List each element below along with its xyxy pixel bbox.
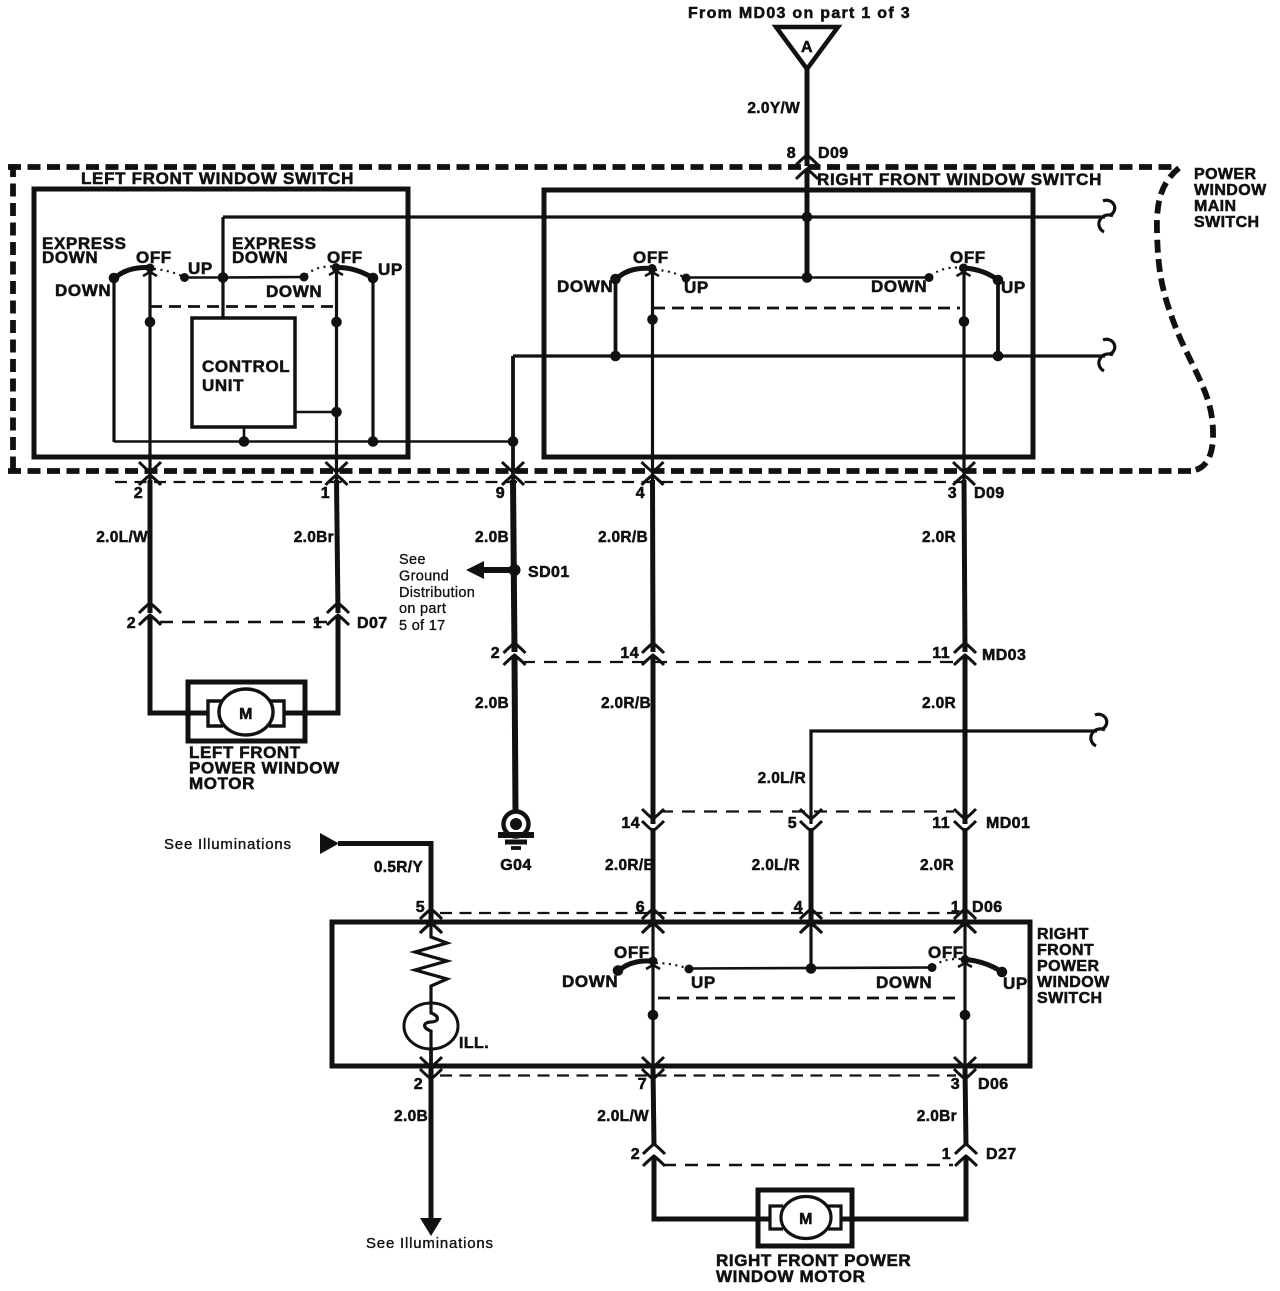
svg-text:2: 2 — [631, 1146, 640, 1163]
switch F dotted throw DOWN-OFF — [934, 959, 961, 966]
svg-text:OFF: OFF — [136, 248, 172, 267]
wire common node to DOWN-B — [223, 276, 304, 279]
svg-text:D09: D09 — [818, 145, 849, 162]
svg-text:M: M — [239, 706, 253, 723]
node: switch A common junction — [218, 272, 229, 283]
wire D27 pin1 to right motor — [840, 1158, 966, 1219]
svg-text:9: 9 — [496, 485, 505, 502]
connector D06 top row dashed line — [440, 912, 958, 914]
svg-text:3: 3 — [948, 485, 957, 502]
svg-text:2: 2 — [127, 615, 136, 632]
node bus / control unit — [239, 436, 250, 447]
svg-text:4: 4 — [636, 485, 645, 502]
wire 2.0B MD03 to ground G04 — [515, 656, 516, 812]
switch B contact DOWN — [300, 273, 309, 282]
label RIGHT FRONT POWER WINDOW SWITCH — [1037, 926, 1110, 1007]
svg-text:UP: UP — [378, 260, 403, 279]
connector symbol D09 pin 8 — [796, 155, 818, 165]
svg-text:DOWN: DOWN — [55, 281, 111, 300]
wire feed from top rail down to switch A common — [221, 217, 224, 318]
svg-text:2.0R: 2.0R — [922, 529, 956, 546]
wire pin 6 down to switch E — [651, 924, 654, 962]
connector D09 pin 1 symbol — [326, 462, 348, 472]
wire break curl (2.0L/R rail) — [1095, 714, 1107, 729]
svg-text:1: 1 — [942, 1146, 951, 1163]
svg-text:2.0R/B: 2.0R/B — [598, 529, 648, 546]
svg-text:8: 8 — [787, 145, 796, 162]
switch B dotted throw DOWN-OFF — [306, 266, 332, 275]
wire 2.0R pin3 to MD03 — [964, 480, 965, 652]
svg-text:D09: D09 — [974, 485, 1005, 502]
svg-text:CONTROL: CONTROL — [202, 357, 290, 376]
switch C arm (OFF-DOWN thick arc) — [616, 268, 653, 280]
arrow to illuminations — [320, 833, 339, 854]
connector D06 pin 2 symbol — [420, 1057, 442, 1067]
svg-text:RIGHT: RIGHT — [1037, 926, 1089, 943]
svg-text:14: 14 — [621, 815, 640, 832]
svg-text:3: 3 — [951, 1076, 960, 1093]
ground G04 symbol — [498, 812, 534, 875]
wire 2.0R/B MD01 to D06 pin 6 — [651, 828, 656, 924]
svg-text:Ground: Ground — [399, 569, 449, 585]
node lower rail / UP-D — [993, 351, 1004, 362]
left front power window motor M1 — [188, 682, 305, 741]
node bus / UP-B — [368, 436, 379, 447]
label EXPRESS DOWN (switch B) — [232, 234, 317, 267]
wire 2.0L/R branch rail to break symbol — [811, 731, 1097, 824]
svg-text:2: 2 — [134, 485, 143, 502]
wire OFF-F down to pin 3 — [963, 960, 966, 1067]
right front window switch box — [544, 190, 1033, 457]
svg-text:UP: UP — [1003, 974, 1028, 993]
label POWER WINDOW MAIN SWITCH — [1194, 166, 1267, 231]
wire OFF-D down to pin 3 — [962, 268, 965, 480]
svg-text:1: 1 — [321, 485, 330, 502]
wire lower rail drop to pin 9 — [511, 356, 515, 480]
switch D contact UP — [993, 275, 1004, 286]
svg-text:SD01: SD01 — [528, 564, 570, 581]
wire control unit bottom to bus — [243, 427, 246, 442]
svg-text:DOWN: DOWN — [232, 248, 288, 267]
right front power window switch box — [332, 922, 1030, 1066]
svg-text:2.0R/B: 2.0R/B — [601, 695, 651, 712]
switch B contact OFF — [332, 263, 341, 272]
wire 2.0B pin9 to SD01 to MD03 — [513, 480, 515, 652]
switch C dotted throw OFF-UP — [655, 270, 684, 277]
power window main switch dashed box: bottom edge — [8, 468, 1192, 474]
node on OFF-B wire (control unit tap) — [331, 407, 342, 418]
node on OFF-B wire (mech link) — [331, 317, 342, 328]
svg-text:D07: D07 — [357, 615, 388, 632]
switch C contact OFF — [648, 264, 657, 273]
connector D07 pin 2 symbol — [139, 603, 161, 613]
svg-text:LEFT FRONT WINDOW SWITCH: LEFT FRONT WINDOW SWITCH — [81, 169, 354, 188]
connector D27 pin 1 symbol — [955, 1144, 977, 1154]
redraw pin entry chevrons over box edge — [420, 923, 442, 933]
rail wire UP-E to DOWN-F — [689, 968, 932, 969]
wire 2.0L/W pin 7 to D27 pin 2 — [653, 1068, 654, 1146]
connector D09 pin 9 symbol — [502, 462, 524, 472]
switch A contact DOWN — [109, 273, 120, 284]
svg-text:DOWN: DOWN — [557, 277, 613, 296]
switch E arm (OFF-DOWN thick arc) — [618, 961, 653, 972]
svg-text:2.0R/B: 2.0R/B — [605, 857, 655, 874]
right front power window motor M2 — [758, 1190, 852, 1246]
svg-text:OFF: OFF — [327, 248, 363, 267]
wire 2.0R/B pin4 to MD03 — [650, 480, 656, 652]
switch B contact UP — [368, 273, 379, 284]
internal ground bus wire — [114, 440, 513, 443]
svg-text:M: M — [799, 1211, 813, 1228]
svg-text:2: 2 — [414, 1076, 423, 1093]
common rail wire UP-C to DOWN-D — [686, 276, 929, 279]
switch D contact DOWN — [925, 273, 934, 282]
wire pin 4 down to rail — [809, 924, 812, 969]
node on OFF-A wire — [145, 317, 156, 328]
connector MD03 pin 11 symbol — [954, 643, 976, 653]
svg-text:See: See — [399, 552, 426, 568]
power window main switch dashed box: wavy right edge — [1157, 168, 1213, 471]
svg-text:2.0L/R: 2.0L/R — [758, 770, 806, 787]
connector D06 pin 5 symbol — [420, 909, 442, 919]
switch D contact OFF — [959, 264, 968, 273]
wire OFF-E down to pin 7 — [651, 961, 654, 1066]
svg-text:4: 4 — [794, 899, 803, 916]
svg-text:2.0L/R: 2.0L/R — [752, 857, 800, 874]
lamp ILL — [404, 1003, 458, 1049]
wire D07 pin1 to left motor — [282, 617, 338, 713]
wire from A to D09 pin 8 — [805, 69, 810, 166]
connector D06 pin 6 symbol — [642, 909, 664, 919]
switch A contact OFF — [146, 264, 155, 273]
connector D09 row dashed line — [115, 481, 965, 483]
node lower rail / DOWN-C — [610, 351, 621, 362]
svg-text:11: 11 — [932, 645, 950, 662]
svg-text:WINDOW MOTOR: WINDOW MOTOR — [716, 1267, 865, 1286]
svg-text:DOWN: DOWN — [42, 248, 98, 267]
feed rail wire from left box to break symbol — [223, 215, 1105, 218]
svg-text:MD03: MD03 — [982, 647, 1026, 664]
svg-text:DOWN: DOWN — [871, 277, 927, 296]
node on OFF-C wire — [647, 314, 658, 325]
svg-text:DOWN: DOWN — [876, 973, 932, 992]
svg-text:D27: D27 — [986, 1146, 1017, 1163]
svg-text:2.0R: 2.0R — [922, 695, 956, 712]
off-page connector A (triangle) — [776, 27, 838, 69]
svg-text:OFF: OFF — [950, 248, 986, 267]
mechanical link dashed line between switch C and D — [653, 307, 960, 310]
switch D dotted throw DOWN-OFF — [931, 267, 959, 276]
connector D09 pin 3 symbol — [953, 462, 975, 472]
wire 2.0L/R MD01 to D06 pin 4 — [809, 828, 814, 924]
switch A pivot tick — [143, 272, 157, 276]
switch A contact UP — [180, 273, 189, 282]
wire OFF-C down to pin 4 — [651, 269, 654, 481]
connector D06 bottom row dashed line — [440, 1074, 956, 1076]
svg-text:G04: G04 — [500, 857, 531, 874]
svg-text:UP: UP — [691, 973, 716, 992]
wire break curl (lower rail) — [1103, 339, 1115, 354]
switch C contact UP — [682, 274, 691, 283]
node rail / pin 4 — [806, 963, 817, 974]
wire 2.0Br pin 3 to D27 pin 1 — [965, 1068, 966, 1146]
svg-text:UP: UP — [1001, 278, 1026, 297]
svg-text:WINDOW: WINDOW — [1037, 974, 1110, 991]
wire DOWN-A down to internal bus — [112, 278, 115, 442]
svg-text:2: 2 — [491, 645, 500, 662]
svg-text:2.0L/W: 2.0L/W — [96, 529, 148, 546]
wire D27 pin2 to right motor — [654, 1158, 772, 1219]
wire 2.0R/B MD03 to MD01 — [651, 656, 656, 824]
svg-text:A: A — [801, 39, 813, 56]
svg-text:SWITCH: SWITCH — [1194, 214, 1260, 231]
connector MD01 pin 14 symbol — [642, 809, 664, 819]
node feed rail / pin 8 wire — [802, 212, 813, 223]
wire control unit right side to OFF-B wire — [295, 411, 337, 414]
wire UP-D down to lower rail — [996, 280, 1000, 356]
wire break curl (feed rail) — [1103, 200, 1115, 215]
node bus joins pin 9 drop — [508, 436, 519, 447]
switch E contact DOWN — [613, 965, 624, 976]
svg-text:UNIT: UNIT — [202, 376, 244, 395]
wire 2.0Br pin1 to D07 — [337, 480, 339, 613]
mechanical link dashed line between switch E and F — [658, 997, 960, 1000]
lower rail wire to break symbol — [513, 354, 1105, 357]
svg-text:See Illuminations: See Illuminations — [164, 836, 292, 853]
switch F contact OFF — [961, 955, 970, 964]
svg-text:14: 14 — [620, 645, 639, 662]
svg-text:7: 7 — [638, 1076, 647, 1093]
switch E dotted throw OFF-UP — [656, 963, 687, 968]
svg-text:2.0B: 2.0B — [475, 695, 509, 712]
svg-text:Distribution: Distribution — [399, 585, 475, 601]
splice SD01 arrow to ground distribution — [482, 567, 514, 573]
connector D27 pin 2 symbol — [643, 1144, 665, 1154]
svg-text:2.0Br: 2.0Br — [294, 529, 334, 546]
svg-text:ILL.: ILL. — [459, 1035, 489, 1052]
connector MD01 pin 11 symbol — [954, 809, 976, 819]
connector MD03 dashed line — [522, 661, 954, 663]
svg-text:2.0L/W: 2.0L/W — [597, 1108, 649, 1125]
svg-text:6: 6 — [636, 899, 645, 916]
note See Ground Distribution on part 5 of 17 — [399, 552, 475, 634]
switch B pivot tick — [329, 271, 343, 275]
connector D06 pin 7 symbol — [642, 1057, 664, 1067]
wire pin 1 down to switch F — [963, 924, 966, 960]
node on OFF-D wire — [959, 316, 970, 327]
svg-text:FRONT: FRONT — [1037, 942, 1094, 959]
wire 2.0R MD01 to D06 pin 1 — [963, 828, 968, 924]
svg-text:0.5R/Y: 0.5R/Y — [374, 859, 424, 876]
svg-text:POWER: POWER — [1194, 166, 1256, 183]
svg-text:2.0Br: 2.0Br — [917, 1108, 957, 1125]
switch C contact DOWN — [610, 274, 621, 285]
svg-text:1: 1 — [313, 615, 322, 632]
svg-text:2.0R: 2.0R — [920, 857, 954, 874]
label LEFT FRONT POWER WINDOW MOTOR — [189, 743, 340, 793]
switch D arm (OFF-UP thick arc) — [964, 268, 999, 280]
svg-text:DOWN: DOWN — [266, 282, 322, 301]
power window main switch dashed box: top edge — [8, 164, 1177, 170]
connector D06 pin 4 symbol — [800, 909, 822, 919]
svg-text:DOWN: DOWN — [562, 972, 618, 991]
wire D07 pin2 to left motor — [150, 617, 209, 713]
switch B arm (OFF-UP thick arc) — [336, 267, 373, 278]
svg-text:MOTOR: MOTOR — [189, 774, 255, 793]
wire 2.0R MD03 to MD01 — [963, 656, 968, 824]
svg-text:5: 5 — [788, 815, 797, 832]
svg-text:See Illuminations: See Illuminations — [366, 1235, 494, 1252]
connector D06 pin 1 symbol — [954, 909, 976, 919]
control unit U1 — [192, 318, 295, 427]
svg-text:WINDOW: WINDOW — [1194, 182, 1267, 199]
resistor R1 (illumination dropping resistor) — [415, 924, 447, 1003]
switch C pivot tick — [645, 272, 659, 276]
wire OFF-B down to pin 1 — [335, 268, 338, 481]
wire 2.0B to see illuminations arrow — [429, 1068, 434, 1220]
switch A arm (DOWN-OFF thick arc) — [114, 267, 151, 279]
connector MD03 pin 14 symbol — [642, 643, 664, 653]
svg-text:D06: D06 — [978, 1076, 1009, 1093]
switch E contact OFF — [649, 957, 658, 966]
svg-text:POWER: POWER — [1037, 958, 1099, 975]
svg-text:RIGHT FRONT WINDOW SWITCH: RIGHT FRONT WINDOW SWITCH — [817, 170, 1102, 189]
node on pin 3 wire — [960, 1010, 971, 1021]
svg-text:5 of 17: 5 of 17 — [399, 618, 445, 634]
connector D07 pin 1 symbol — [327, 603, 349, 613]
wire OFF-A down to pin 2 — [148, 268, 151, 480]
connector D06 pin 3 symbol — [954, 1057, 976, 1067]
node SD01 — [509, 564, 521, 576]
svg-text:MAIN: MAIN — [1194, 198, 1236, 215]
svg-text:on part: on part — [399, 601, 446, 617]
svg-text:11: 11 — [932, 815, 950, 832]
connector D09 pin 2 symbol — [139, 462, 161, 472]
svg-text:MD01: MD01 — [986, 815, 1030, 832]
switch F pivot tick — [958, 963, 972, 967]
connector D27 dashed line — [663, 1164, 953, 1167]
power window main switch dashed box: left edge — [10, 164, 16, 474]
mechanical link dashed line between switch A and B — [150, 305, 335, 308]
node pin 8 wire / common rail — [802, 272, 813, 283]
svg-text:2.0B: 2.0B — [394, 1108, 428, 1125]
svg-text:SWITCH: SWITCH — [1037, 990, 1103, 1007]
connector MD03 pin 2 symbol — [504, 643, 526, 653]
connector D09 pin 4 symbol — [642, 462, 664, 472]
label RIGHT FRONT POWER WINDOW MOTOR — [716, 1251, 911, 1286]
switch A dotted throw OFF-UP — [154, 269, 183, 277]
switch E contact UP — [685, 965, 694, 974]
switch F contact DOWN — [928, 963, 937, 972]
wire 2.0L/W pin2 to D07 — [148, 480, 153, 613]
switch F contact UP — [997, 967, 1008, 978]
switch D pivot tick — [957, 272, 971, 276]
wire 0.5R/Y from arrow to D06 pin 5 — [338, 844, 431, 925]
svg-text:From MD03 on part 1 of 3: From MD03 on part 1 of 3 — [688, 5, 910, 22]
svg-text:2.0B: 2.0B — [475, 529, 509, 546]
connector MD01 pin 5 symbol — [800, 809, 822, 819]
label EXPRESS DOWN (switch A) — [42, 234, 127, 267]
svg-text:UP: UP — [188, 259, 213, 278]
connector MD01 dashed line — [660, 810, 954, 812]
switch E pivot tick — [646, 965, 660, 969]
wire DOWN-C down to lower rail — [614, 279, 618, 356]
wire UP-B down to internal bus — [371, 278, 374, 442]
svg-text:D06: D06 — [972, 899, 1003, 916]
node on pin 7 wire — [648, 1010, 659, 1021]
connector D07 dashed line — [160, 621, 327, 624]
wire pin 8 drop to switch common rail — [805, 171, 810, 278]
switch F arm (OFF-UP thick arc) — [965, 960, 1002, 973]
svg-text:2.0Y/W: 2.0Y/W — [747, 100, 800, 117]
left front window switch box — [34, 189, 408, 457]
wire UP-A to common node — [185, 276, 224, 279]
wire lamp to pin 2 exit — [429, 1049, 433, 1066]
